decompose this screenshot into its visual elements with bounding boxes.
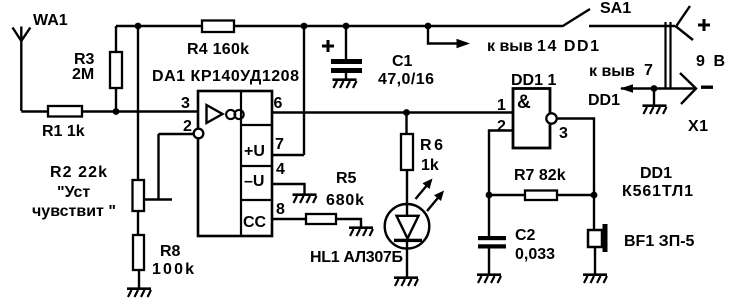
svg-text:R2 22k: R2 22k — [50, 164, 107, 181]
node branch to DD1 pin 14 — [425, 23, 432, 30]
svg-text:7: 7 — [275, 136, 284, 153]
potentiometer R2 — [133, 180, 145, 211]
wire R5 to ground — [336, 219, 361, 227]
svg-text:+U: +U — [244, 143, 265, 160]
logic gate DD1.1 box — [513, 89, 550, 149]
label R2 22k Уст чувствит — [32, 164, 116, 220]
LED HL1 circle — [385, 204, 430, 249]
wire R8 to ground — [138, 270, 140, 288]
svg-text:BF1 ЗП-5: BF1 ЗП-5 — [624, 233, 695, 250]
svg-text:–U: –U — [244, 173, 264, 190]
svg-text:14 DD1: 14 DD1 — [537, 38, 599, 55]
label DD1 К561ТЛ1 — [622, 165, 693, 200]
svg-text:R1 1k: R1 1k — [42, 123, 85, 140]
antenna WA1 — [13, 27, 31, 112]
svg-text:R5: R5 — [336, 170, 357, 187]
op-amp pin 2 inversion bubble — [194, 129, 204, 139]
wire R3 vertical lead — [115, 26, 117, 111]
wire pin 4 to ground — [272, 184, 305, 194]
ground (op-amp pin 4) — [293, 195, 317, 203]
svg-text:DD1: DD1 — [588, 92, 620, 109]
piezo BF1 plate bar — [603, 224, 608, 252]
wire battery minus — [621, 87, 694, 89]
wire C2 top lead — [488, 195, 490, 236]
svg-text:к выв: к выв — [589, 63, 635, 80]
svg-text:чувствит ": чувствит " — [32, 203, 116, 220]
arrowhead to DD1 pin 14 — [457, 39, 471, 48]
node R7/C2 junction — [486, 192, 493, 199]
label C1 47,0/16 — [378, 53, 434, 88]
ground (R5) — [349, 228, 373, 236]
svg-text:К561ТЛ1: К561ТЛ1 — [622, 183, 693, 200]
capacitor C1 — [331, 59, 362, 73]
svg-text:2M: 2M — [72, 66, 94, 83]
svg-text:2: 2 — [497, 118, 506, 135]
wire R6 to LED — [406, 170, 408, 205]
node C1 junction — [343, 23, 350, 30]
svg-text:DA1 КР140УД1208: DA1 КР140УД1208 — [152, 68, 299, 85]
svg-text:1: 1 — [497, 97, 506, 114]
battery connector X1 double line — [666, 22, 671, 89]
svg-text:"Уст: "Уст — [57, 184, 90, 201]
wire op-amp output pin 6 to DD1 pin 1 — [272, 111, 513, 113]
wire C1 top lead — [345, 26, 347, 59]
svg-text:к выв: к выв — [487, 38, 533, 55]
svg-text:SA1: SA1 — [600, 0, 631, 17]
svg-text:100k: 100k — [152, 261, 194, 278]
resistor R5 — [306, 214, 336, 224]
op-amp DA1 infinity symbol — [226, 110, 244, 119]
resistor R3 — [110, 52, 122, 88]
ground (HL1) — [394, 278, 418, 286]
op-amp DA1 triangle — [207, 105, 223, 123]
svg-text:680k: 680k — [326, 192, 364, 209]
node rail/R2 junction — [135, 23, 142, 30]
svg-text:6: 6 — [274, 95, 283, 112]
svg-text:WA1: WA1 — [33, 12, 68, 29]
svg-text:DD1 1: DD1 1 — [511, 72, 556, 89]
resistor R4 — [202, 21, 234, 33]
wire pin 7 to rail — [272, 26, 304, 155]
svg-text:&: & — [517, 92, 531, 113]
wire BF1 top lead — [593, 195, 595, 230]
svg-text:R4 160k: R4 160k — [187, 41, 249, 58]
resistor R8 — [133, 235, 144, 270]
svg-text:7: 7 — [644, 62, 653, 79]
node R6 junction — [403, 109, 410, 116]
svg-text:DD1: DD1 — [640, 165, 672, 182]
wire R6 top lead — [405, 113, 407, 135]
wire R2 wiper — [144, 134, 194, 200]
label minus (battery) — [701, 86, 713, 89]
wire input (antenna to op-amp pin 3) — [21, 110, 198, 112]
X1 plus terminal chevron — [676, 6, 693, 40]
svg-text:0,033: 0,033 — [515, 246, 555, 263]
wire R7 right — [557, 194, 594, 196]
label к выв 14 DD1 — [487, 38, 599, 55]
op-amp DA1 inner column — [241, 91, 272, 236]
svg-text:C1: C1 — [392, 53, 413, 70]
resistor R1 — [48, 106, 82, 117]
LED emission arrow 1 — [416, 179, 433, 200]
arrowhead to DD1 pin 7 — [620, 84, 633, 92]
ground (C2) — [477, 275, 501, 283]
wire rail to R2 — [137, 26, 139, 181]
wire branch to DD1 pin 14 — [428, 26, 458, 44]
piezo BF1 body — [588, 230, 602, 247]
wire R7 left — [489, 194, 525, 196]
wire DD1 pin 3 output — [557, 119, 594, 196]
node pin7 rail junction — [301, 23, 308, 30]
node BF1 junction — [591, 192, 598, 199]
svg-text:R8: R8 — [160, 243, 181, 260]
wire C2 bottom lead — [488, 249, 490, 275]
label к выв 7 — [589, 62, 653, 80]
node R3/R1 junction — [113, 108, 120, 115]
svg-text:9 В: 9 В — [696, 53, 725, 70]
resistor R7 — [525, 191, 557, 201]
wire C1 bottom lead — [345, 73, 347, 79]
svg-text:8: 8 — [276, 201, 285, 218]
op-amp U1 DA1 box — [198, 91, 272, 236]
label R3 2M — [72, 51, 95, 83]
label R8 100k — [152, 243, 194, 278]
resistor R6 — [401, 134, 413, 170]
svg-text:CC: CC — [243, 214, 267, 231]
LED HL1 triangle — [397, 216, 419, 239]
LED HL1 anode lead — [406, 205, 408, 216]
C1 plus sign — [322, 40, 334, 52]
label R6 1k — [420, 137, 443, 174]
gate output bubble — [546, 113, 556, 123]
svg-text:X1: X1 — [688, 118, 708, 135]
capacitor C2 — [478, 236, 506, 249]
ground (BF1) — [583, 275, 607, 283]
svg-text:C2: C2 — [515, 227, 536, 244]
label + (battery) — [698, 19, 710, 31]
LED HL1 cathode lead — [406, 242, 408, 277]
svg-text:4: 4 — [276, 161, 285, 178]
wire R2 to R8 — [137, 210, 139, 235]
label C2 0,033 — [515, 227, 555, 263]
svg-text:2: 2 — [183, 118, 192, 135]
svg-text:1k: 1k — [421, 157, 439, 174]
svg-text:R7 82k: R7 82k — [514, 167, 566, 184]
ground (C1) — [333, 80, 357, 88]
LED emission arrow 2 — [427, 191, 444, 212]
power rail right segment — [589, 25, 675, 27]
node battery ground junction — [651, 85, 658, 92]
LED HL1 cathode bar — [394, 239, 422, 242]
X1 minus terminal chevron — [680, 73, 696, 104]
wire pin 8 to R5 — [272, 218, 306, 220]
svg-text:HL1 АЛ307Б: HL1 АЛ307Б — [310, 249, 403, 266]
wire DD1 pin 2 — [489, 131, 513, 196]
svg-text:R6: R6 — [420, 137, 443, 154]
wire BF1 bottom lead — [594, 247, 596, 274]
svg-text:47,0/16: 47,0/16 — [378, 71, 434, 88]
svg-text:3: 3 — [559, 125, 568, 142]
label R5 680k — [326, 170, 364, 209]
ground (battery minus) — [643, 106, 667, 114]
switch SA1 lever — [562, 9, 590, 27]
ground (below R8) — [127, 289, 151, 297]
svg-text:3: 3 — [181, 95, 190, 112]
wire battery ground stub — [653, 89, 655, 106]
power rail (top wire) — [116, 25, 562, 27]
